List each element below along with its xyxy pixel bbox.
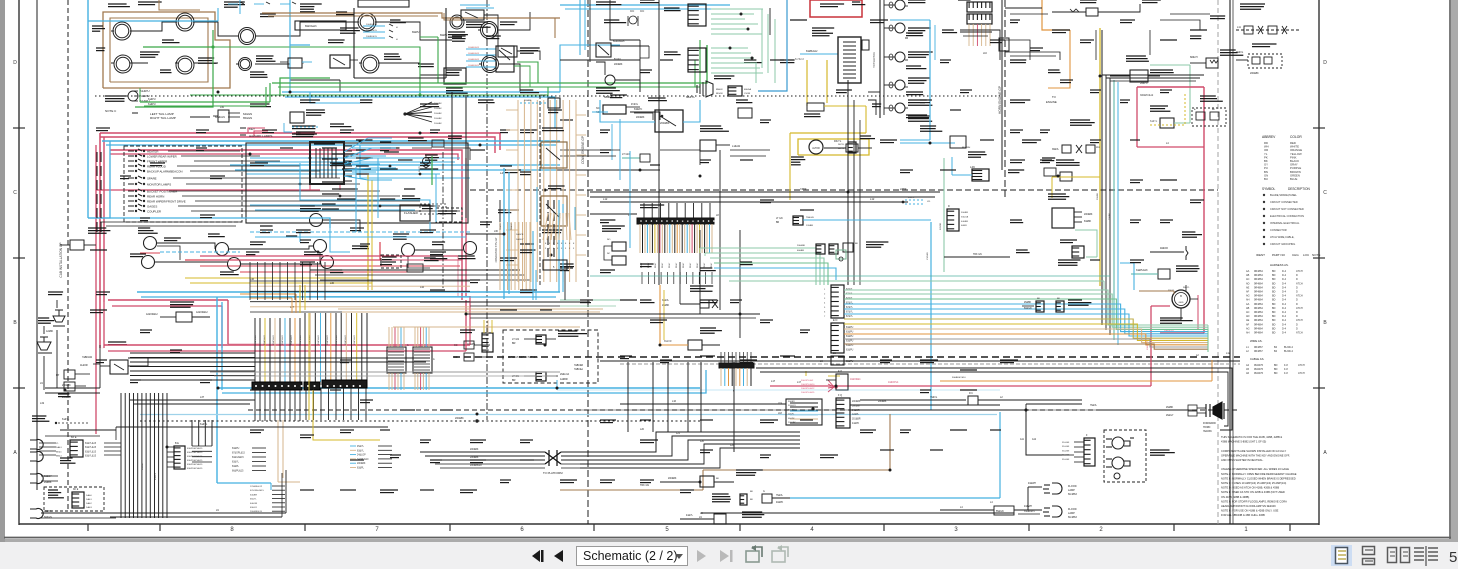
svg-text:20&BK: 20&BK — [662, 305, 670, 307]
E connector strip 1 — [831, 285, 844, 318]
toolbar last page button — [720, 550, 733, 562]
svg-text:D: D — [948, 205, 950, 208]
svg-text:63&PU&15: 63&PU&15 — [318, 334, 320, 345]
left dashed vertical boundary — [67, 0, 69, 510]
svg-text:UNLESS OTHERWISE SPECIFIED: AL: UNLESS OTHERWISE SPECIFIED: ALL WIRES 16… — [1221, 467, 1289, 471]
svg-text:AF: AF — [1246, 323, 1250, 326]
tan cluster labels — [520, 89, 533, 91]
svg-text:44&PK: 44&PK — [852, 423, 860, 425]
bundleA verticals — [254, 318, 256, 382]
svg-text:61&PU: 61&PU — [140, 89, 150, 93]
svg-text:63&YL&15: 63&YL&15 — [85, 451, 97, 453]
svg-text:9R4864: 9R4864 — [1254, 323, 1263, 326]
lt gn comb mid — [793, 216, 803, 225]
svg-text:LT GN: LT GN — [622, 152, 630, 156]
label sender top — [224, 1, 245, 3]
toolbar page dropdown — [577, 547, 688, 566]
svg-text:68&OR: 68&OR — [142, 462, 144, 470]
dotted bus y94 — [95, 95, 1000, 97]
label svc2 — [452, 35, 466, 37]
svg-text:63&GY: 63&GY — [155, 472, 157, 480]
svg-text:SPARE: SPARE — [147, 176, 157, 180]
switch rows — [128, 150, 134, 152]
crimson right verticals — [461, 154, 463, 300]
label gen gauge — [300, 3, 322, 5]
svg-text:9M4076: 9M4076 — [1254, 372, 1264, 375]
orange bottom long — [940, 380, 1212, 382]
svg-text:CAB INSTALLATION GP: CAB INSTALLATION GP — [59, 242, 63, 277]
svg-text:NOTE D: USED AS ATCH ON 416B,: NOTE D: USED AS ATCH ON 416B, 426B & 436… — [1221, 486, 1279, 490]
neutral start group ctr — [700, 327, 716, 329]
cyan dotted long — [140, 414, 997, 416]
svg-text:CC: CC — [454, 344, 458, 347]
black rails right — [756, 368, 1232, 430]
heater blower label — [812, 27, 834, 29]
svg-text:AC: AC — [1246, 278, 1250, 281]
cyan pair east — [217, 387, 700, 389]
svg-text:D-4: D-4 — [1282, 311, 1287, 314]
svg-text:L42: L42 — [420, 286, 425, 289]
svg-text:FORWARD: FORWARD — [1203, 422, 1216, 425]
section divider dashed mid — [587, 0, 589, 524]
cyan bucket loop — [790, 497, 1000, 499]
junction dots — [217, 91, 220, 94]
label lamp sender mid — [340, 27, 359, 29]
svg-text:61&DA&16: 61&DA&16 — [613, 40, 625, 43]
svg-text:10&OR&4: 10&OR&4 — [850, 379, 861, 381]
bundleA2 verticals — [304, 313, 306, 382]
label fuel gauge — [140, 51, 160, 53]
black box ammeter — [444, 68, 466, 84]
to platform X — [545, 450, 561, 466]
svg-text:63&PU&15: 63&PU&15 — [336, 334, 338, 345]
svg-text:100&BU&15: 100&BU&15 — [468, 53, 480, 55]
resistor diode row — [408, 137, 424, 139]
svg-text:26&BK: 26&BK — [1166, 407, 1174, 409]
stoptail dashed box 2 — [44, 487, 104, 511]
svg-text:63&PU&15: 63&PU&15 — [291, 334, 293, 345]
svg-text:60&PU: 60&PU — [846, 361, 854, 363]
green diode verticals — [761, 9, 763, 68]
svg-text:D-4: D-4 — [1282, 295, 1287, 298]
svg-text:AC: AC — [1246, 311, 1250, 314]
comb top right — [967, 2, 992, 12]
crimson bus top — [100, 133, 500, 150]
big connector strip wires down — [639, 224, 641, 253]
layout icon two page continuous — [1414, 546, 1438, 566]
svg-text:76&VL: 76&VL — [930, 396, 938, 399]
svg-text:63&PU: 63&PU — [846, 336, 854, 338]
coolant gage top — [1080, 0, 1097, 1]
gauge circle service meter 2 — [482, 56, 499, 73]
svg-text:12&BK: 12&BK — [46, 331, 54, 333]
beacon cyan rows — [363, 25, 385, 27]
rainbow band — [844, 290, 1208, 325]
svg-text:63&PC: 63&PC — [634, 107, 642, 111]
crimson alt connect — [1151, 305, 1170, 307]
svg-text:63&PU&PH&15: 63&PU&PH&15 — [187, 452, 203, 454]
top arrows row — [228, 3, 238, 5]
mid black verticals 2 — [699, 230, 701, 314]
svg-text:300&GY: 300&GY — [788, 405, 796, 407]
svg-text:D: D — [1323, 60, 1327, 66]
svg-text:200&BK: 200&BK — [470, 449, 479, 451]
svg-text:200&BK: 200&BK — [524, 100, 532, 102]
margin ticks — [13, 127, 25, 129]
svg-text:44&YL: 44&YL — [686, 515, 694, 517]
svg-text:ABBREV: ABBREV — [1262, 135, 1276, 139]
diode as comb 1 — [688, 4, 706, 26]
cora area labels — [744, 59, 756, 61]
svg-text:D-4: D-4 — [1282, 307, 1287, 310]
svg-text:200&BK: 200&BK — [434, 113, 442, 115]
misc right labels — [1010, 59, 1026, 61]
hazard box — [436, 208, 462, 222]
svg-text:9R4864: 9R4864 — [1254, 319, 1263, 322]
label lamp branch — [92, 25, 103, 27]
toolbar rotate icon 2 — [772, 545, 788, 562]
svg-text:9R4864: 9R4864 — [1254, 295, 1263, 298]
svg-text:INTERNAL ELECTRICAL: INTERNAL ELECTRICAL — [1270, 221, 1300, 225]
toolbar next page button — [697, 550, 706, 562]
svg-text:HAZARD LAMPS: HAZARD LAMPS — [249, 134, 272, 138]
park brake lamp labels — [906, 32, 923, 34]
svg-text:NO: NO — [607, 239, 611, 241]
svg-text:L21: L21 — [676, 432, 681, 435]
svg-text:AE: AE — [1246, 286, 1250, 289]
svg-text:8-7&OJ: 8-7&OJ — [795, 57, 804, 61]
svg-text:ATCH: ATCH — [1296, 295, 1303, 298]
svg-text:D-4: D-4 — [1282, 327, 1287, 330]
svg-text:66&YL: 66&YL — [250, 499, 257, 501]
svg-text:FLASHER: FLASHER — [404, 211, 419, 215]
tan bundle below strip — [499, 222, 501, 290]
black dotted long — [140, 420, 700, 422]
crimson into bundles — [228, 343, 260, 345]
cora headlamp sw box — [461, 10, 484, 20]
gauge circle voltmeter — [361, 55, 379, 73]
gauge circle service meter — [239, 58, 252, 71]
dashed bus long — [453, 356, 1240, 358]
cyan verticals wiper — [536, 187, 538, 222]
svg-text:COLOR: COLOR — [1290, 135, 1302, 139]
svg-text:63&PU&15: 63&PU&15 — [255, 334, 257, 345]
engine start solenoid — [1126, 55, 1146, 57]
svg-text:63&YL&15: 63&YL&15 — [85, 443, 97, 445]
svg-text:63&PU&PH&15: 63&PU&PH&15 — [187, 460, 203, 462]
svg-text:D-4: D-4 — [1282, 323, 1287, 326]
200BK pair bl — [45, 387, 100, 389]
svg-text:68&OY: 68&OY — [1190, 56, 1198, 59]
svg-text:68&GN: 68&GN — [44, 516, 52, 519]
svg-text:9R4864: 9R4864 — [1254, 274, 1263, 277]
black staircase to platform — [580, 432, 800, 452]
svg-text:TRK GN: TRK GN — [973, 254, 982, 256]
relay right B — [314, 240, 327, 253]
cyan vertical 931 — [930, 222, 932, 410]
yellow bundle left — [367, 175, 369, 290]
stop tail label 1 — [60, 457, 73, 459]
switch labels right — [322, 147, 337, 149]
svg-text:200&BK: 200&BK — [788, 422, 796, 424]
cyan lower staircase — [88, 218, 330, 228]
crimson switch feed — [96, 189, 320, 191]
side lock sw — [108, 341, 126, 343]
svg-text:200&BK: 200&BK — [455, 417, 464, 420]
lamp socket 4 — [30, 509, 43, 519]
ruler ticks — [87, 524, 89, 531]
svg-text:70&BK: 70&BK — [1109, 213, 1111, 220]
svg-text:HORN: HORN — [1203, 426, 1211, 429]
pp boxes — [64, 370, 75, 379]
indicator lamp wires — [884, 4, 895, 6]
svg-text:9M4076: 9M4076 — [1254, 364, 1264, 367]
svg-text:D-4: D-4 — [1282, 319, 1287, 322]
svg-text:ATCH: ATCH — [1298, 372, 1305, 375]
svg-text:9R4864: 9R4864 — [1254, 270, 1263, 273]
svg-text:BD: BD — [1272, 323, 1276, 326]
svg-text:200&BK: 200&BK — [797, 245, 806, 247]
svg-text:B1 PU: B1 PU — [614, 59, 621, 61]
green verticals into diode — [694, 60, 696, 87]
svg-text:30&BR: 30&BR — [961, 212, 968, 214]
svg-text:BK&1: BK&1 — [56, 451, 62, 453]
crimson ring right — [1137, 86, 1204, 88]
bus horizontal pair — [128, 357, 430, 359]
gray wire pair — [210, 371, 560, 373]
svg-text:PK&Y: PK&Y — [662, 262, 664, 268]
svg-text:BR: BR — [776, 222, 780, 224]
high beam lamp — [605, 75, 615, 85]
tan wiper box 1 — [541, 142, 567, 168]
L16 rail — [620, 403, 786, 405]
bundleA bars — [252, 382, 302, 390]
svg-text:BD: BD — [1274, 372, 1278, 375]
main relay circle — [402, 244, 415, 257]
svg-text:BU4D-4: BU4D-4 — [1284, 346, 1294, 349]
svg-text:67&YL: 67&YL — [846, 312, 854, 314]
svg-text:100&BU&15: 100&BU&15 — [468, 59, 480, 61]
orange mid vertical — [659, 285, 661, 345]
left inner vertical wire — [36, 0, 38, 490]
gauge circle lamp group — [176, 56, 194, 74]
svg-text:200&BK: 200&BK — [434, 118, 442, 120]
toolbar prev page button — [554, 550, 563, 562]
main relay label — [393, 233, 409, 235]
svg-text:DA&1: DA&1 — [56, 446, 62, 449]
svg-text:KK E: KK E — [71, 436, 77, 439]
svg-text:D: D — [1296, 274, 1298, 277]
svg-text:200&BK: 200&BK — [62, 384, 71, 387]
svg-text:AH: AH — [1246, 299, 1250, 302]
cc boxes bl — [464, 341, 474, 349]
svg-text:63&PU&15: 63&PU&15 — [264, 334, 266, 345]
svg-text:52&PJ: 52&PJ — [419, 166, 421, 172]
svg-text:D: D — [1296, 323, 1298, 326]
rainbow right drops — [1207, 325, 1209, 352]
top mid cyan pair right — [560, 4, 730, 6]
tan gauge harness loop — [103, 12, 230, 88]
start relay — [464, 242, 477, 255]
cyan switch rows — [250, 157, 460, 159]
svg-text:36&YL: 36&YL — [1183, 287, 1190, 289]
svg-text:44&PK: 44&PK — [788, 418, 795, 420]
tan fan below box2 — [543, 213, 548, 240]
relay labels2 — [164, 237, 181, 239]
svg-text:AH: AH — [1246, 332, 1250, 335]
engine oil en label — [1220, 49, 1236, 51]
black wires gauge cluster — [130, 22, 177, 31]
svg-text:BD: BD — [1272, 278, 1276, 281]
green tail lamp wire — [135, 47, 213, 107]
svg-text:63&PU: 63&PU — [232, 448, 240, 450]
toolbar first page button — [532, 550, 544, 562]
svg-text:L49: L49 — [970, 165, 975, 169]
crimson second run — [110, 150, 462, 154]
svg-text:COUPLER: COUPLER — [147, 209, 161, 213]
key switch cyan fan — [344, 138, 392, 152]
svg-text:F-8: F-8 — [1284, 364, 1288, 367]
cyan bus A — [102, 140, 560, 142]
svg-text:L1&GN: L1&GN — [732, 145, 740, 148]
svg-text:9R4864: 9R4864 — [1254, 303, 1263, 306]
headlamp dashed box r — [1104, 430, 1146, 482]
tan wiper box 2 — [541, 196, 567, 226]
black mid rails2 — [466, 313, 760, 315]
svg-text:AA: AA — [1246, 270, 1250, 273]
svg-text:BD: BD — [1272, 332, 1276, 335]
svg-text:100&BU&15: 100&BU&15 — [468, 47, 480, 49]
svg-text:DA&2: DA&2 — [86, 502, 92, 505]
pale green elbow — [1189, 65, 1191, 123]
hb wires — [615, 80, 640, 92]
crimson bottom long — [770, 385, 1151, 387]
gauge circle volt — [239, 28, 256, 45]
cyan pair 504 — [503, 168, 505, 299]
svg-text:LT GN: LT GN — [512, 375, 519, 378]
svg-text:L11: L11 — [1237, 26, 1241, 29]
svg-text:BD: BD — [1272, 286, 1276, 289]
svg-text:68&DA: 68&DA — [744, 88, 751, 91]
svg-text:9R4864: 9R4864 — [1254, 278, 1263, 281]
flood lamp r2 — [1043, 506, 1062, 517]
beacon sw box — [655, 110, 683, 132]
green diode fan — [711, 8, 763, 10]
svg-text:BD: BD — [1272, 311, 1276, 314]
dashed bus top mid — [470, 189, 1218, 191]
svg-text:KEY: KEY — [249, 127, 255, 131]
tan pair bl — [277, 420, 279, 482]
svg-text:33&OA: 33&OA — [961, 215, 969, 218]
svg-text:GRD: GRD — [1179, 302, 1184, 304]
svg-text:12&BR: 12&BR — [560, 378, 568, 381]
svg-text:9R4864: 9R4864 — [1254, 299, 1263, 302]
svg-text:64&OR: 64&OR — [250, 503, 258, 505]
svg-text:BN&1: BN&1 — [56, 456, 62, 458]
svg-text:200&BK: 200&BK — [668, 478, 677, 480]
blue vertical 787 — [758, 0, 787, 91]
svg-text:F Q: F Q — [838, 394, 842, 397]
label volt2 — [384, 53, 399, 55]
svg-text:PK&Y: PK&Y — [655, 262, 657, 268]
green long run A — [272, 45, 707, 83]
6YL wire — [116, 426, 388, 428]
BE comb — [174, 446, 185, 469]
black grid bottom left quad — [310, 269, 520, 271]
svg-text:ATCH: ATCH — [1296, 319, 1303, 322]
svg-text:D-4: D-4 — [1282, 299, 1287, 302]
L12 cyan dashes — [905, 199, 925, 201]
svg-text:BD: BD — [1272, 307, 1276, 310]
indicator lamp labels — [908, 0, 926, 1]
cyan op stn link — [556, 380, 558, 390]
relay right A — [310, 214, 323, 227]
svg-text:NOTE B: NORMALLY CLOSED WHEN B: NOTE B: NORMALLY CLOSED WHEN BRAKE IS DE… — [1221, 476, 1296, 480]
solid border switch outbox — [246, 143, 468, 223]
cyan long right lower — [557, 389, 1000, 391]
diode as comb 2 — [688, 48, 706, 72]
service meter circle small — [450, 15, 464, 29]
flasher dash sub — [420, 204, 446, 214]
transmission neutralizer — [700, 125, 721, 127]
svg-text:AB: AB — [1246, 307, 1250, 310]
svg-text:26&LOA: 26&LOA — [560, 373, 569, 376]
svg-text:DK/YL: DK/YL — [834, 140, 842, 143]
relay cab2 — [142, 256, 155, 269]
svg-text:AG: AG — [1246, 295, 1250, 298]
svg-text:26&BK: 26&BK — [1024, 302, 1032, 304]
cyan rows into cora — [466, 48, 496, 50]
svg-text:BU: BU — [1264, 177, 1268, 181]
svg-text:REAR WIPER/FRONT DRIVE: REAR WIPER/FRONT DRIVE — [147, 199, 186, 203]
svg-text:Schematic (2 / 2): Schematic (2 / 2) — [583, 549, 677, 563]
svg-text:PK&Y: PK&Y — [690, 262, 692, 268]
svg-text:63&YL: 63&YL — [357, 450, 365, 452]
svg-text:BD: BD — [1274, 364, 1278, 367]
svg-text:TO PLATFORM: TO PLATFORM — [543, 471, 563, 475]
svg-text:BLADE,SPADE,PANEL: BLADE,SPADE,PANEL — [1270, 193, 1297, 197]
svg-text:9R4864: 9R4864 — [1254, 315, 1263, 318]
svg-text:D-4: D-4 — [1282, 278, 1287, 281]
svg-text:68&PU: 68&PU — [412, 32, 420, 34]
left vertical bundle C — [120, 393, 122, 518]
E connector strip 2 — [831, 323, 844, 353]
svg-text:D-4: D-4 — [1282, 274, 1287, 277]
svg-text:B E: B E — [175, 442, 179, 445]
J2 cluster — [548, 98, 560, 108]
alternator bottom circle — [1172, 290, 1190, 308]
lamp socket 3 — [30, 474, 43, 484]
svg-text:E D: E D — [833, 318, 837, 322]
flood wires r — [1014, 509, 1042, 511]
svg-text:BD: BD — [1272, 291, 1276, 294]
svg-text:AF: AF — [1246, 291, 1250, 294]
teal bl link — [590, 275, 1110, 277]
svg-text:PK&Y: PK&Y — [669, 262, 671, 268]
svg-text:68&OA&16: 68&OA&16 — [305, 25, 317, 28]
heater resistor box — [838, 37, 861, 83]
svg-text:64&BR: 64&BR — [250, 494, 257, 496]
crimson key row — [248, 128, 265, 133]
svg-text:9R4864: 9R4864 — [1254, 286, 1263, 289]
svg-text:LOC: LOC — [1303, 253, 1310, 257]
black right top wires — [1005, 7, 1042, 9]
label beacon sw — [648, 97, 666, 99]
svg-text:L30: L30 — [330, 282, 335, 285]
crimson relay run — [185, 242, 380, 260]
rear horn label bl — [48, 291, 63, 293]
svg-text:63&PU&15: 63&PU&15 — [327, 334, 329, 345]
